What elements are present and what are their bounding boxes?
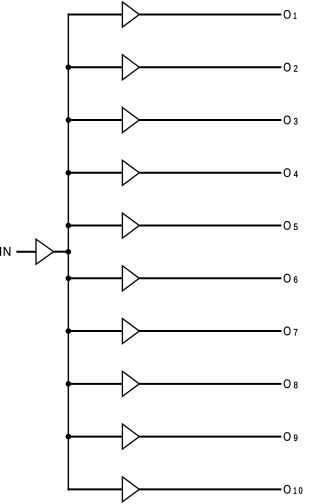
wire bus to buffer U4	[68, 172, 123, 174]
wire buffer U7 to output O7	[139, 330, 281, 332]
wire bus to buffer U5	[68, 225, 123, 227]
pin label O7	[284, 327, 298, 336]
buffer U0 (input driver)	[36, 239, 54, 264]
pin label O8	[284, 379, 298, 388]
net label IN	[0, 247, 10, 256]
pin label O10	[284, 485, 303, 494]
wire U0 output to bus	[54, 251, 70, 253]
wire buffer U2 to output O2	[139, 66, 281, 68]
node: bus junction row 3	[66, 117, 72, 123]
node: bus junction row 4	[66, 170, 72, 176]
node: bus junction row 2	[66, 64, 72, 70]
pin label O1	[284, 10, 297, 19]
wire bus to buffer U7	[68, 330, 123, 332]
node: bus junction row 5	[66, 223, 72, 229]
wire buffer U1 to output O1	[139, 14, 281, 16]
buffer U9	[122, 424, 139, 449]
wire buffer U3 to output O3	[139, 119, 281, 121]
wire buffer U4 to output O4	[139, 172, 281, 174]
wire bus to buffer U10	[68, 488, 123, 490]
wire bus to buffer U2	[68, 66, 123, 68]
wire IN to input buffer U0	[16, 251, 36, 253]
wire buffer U9 to output O9	[139, 436, 281, 438]
buffer U6	[122, 266, 139, 291]
wire buffer U10 to output O10	[139, 488, 281, 490]
node: input junction on bus	[66, 249, 72, 255]
buffer U10	[122, 477, 139, 502]
vertical distribution bus wire	[67, 14, 69, 491]
node: bus junction row 6	[66, 276, 72, 282]
buffer U4	[122, 160, 139, 185]
pin label O4	[284, 168, 298, 177]
wire buffer U6 to output O6	[139, 277, 281, 279]
pin label O3	[284, 116, 298, 125]
pin label O6	[284, 274, 298, 283]
wire bus to buffer U3	[68, 119, 123, 121]
node: bus junction row 9	[66, 434, 72, 440]
buffer U3	[122, 107, 139, 132]
buffer U1	[122, 2, 139, 27]
wire bus to buffer U1	[68, 14, 123, 16]
wire buffer U8 to output O8	[139, 383, 281, 385]
pin label O2	[284, 63, 298, 72]
wire buffer U5 to output O5	[139, 225, 281, 227]
buffer U8	[122, 371, 139, 396]
buffer U2	[122, 55, 139, 80]
wire bus to buffer U8	[68, 383, 123, 385]
node: bus junction row 8	[66, 381, 72, 387]
wire bus to buffer U6	[68, 277, 123, 279]
buffer U7	[122, 319, 139, 344]
pin label O9	[284, 432, 298, 441]
buffer U5	[122, 213, 139, 238]
node: bus junction row 7	[66, 328, 72, 334]
wire bus to buffer U9	[68, 436, 123, 438]
pin label O5	[284, 221, 298, 230]
